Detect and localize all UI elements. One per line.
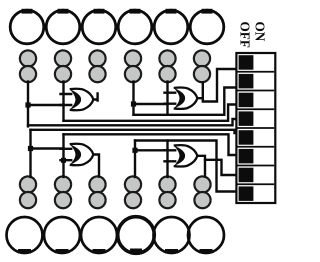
terminal pair P8 [55,176,71,208]
op-amp gate G2 (top-right XOR) [174,88,198,109]
terminal pair P2 [55,50,71,82]
lamp L3 [82,9,116,44]
wire bus4 (G3 rail) to row6 [64,134,238,155]
op-amp gate G3 (bottom-left XOR) [70,144,94,165]
wire P10 up [134,141,136,178]
svg-text:OFF: OFF [237,22,252,48]
DIP switch S1 body [236,53,275,203]
wire G3 input1 from P7 [31,147,64,149]
wire G2 output to switch row1 [203,69,237,102]
lamp L12 [188,217,224,253]
terminal pair P9 [89,176,105,208]
lamp L10 (bolder) [118,217,155,254]
terminal pair P4 [125,50,141,82]
node D (P10/G4 input) [132,148,137,153]
wire P7 up [29,130,31,177]
terminal pair P7 (bottom) [20,176,36,208]
lamp L11 [154,217,190,253]
wire G2 output to P6 [197,83,203,99]
node E (G3 rail/in2) [61,158,66,163]
wire G3 rail (P8 up) [62,134,64,177]
lamp L1 (top row) [10,9,44,44]
wire G2 rail (P5 down) [166,82,168,115]
lamp L5 [154,9,188,44]
wire bus S6 (P10 net) to row8 [135,141,237,192]
wire G4 rail (P11 up) [166,141,168,178]
wire bus S5 (P4 net) to row2 [134,88,238,115]
wire bus1 (G1 rail) to row3 [64,105,238,121]
lamp L4 [118,9,152,44]
lamp L8 [44,217,80,253]
op-amp gate G1 (top-left XOR) [70,89,94,110]
wire P4 down [132,82,134,115]
wire bus2 (P1 net) to row4 [28,119,237,125]
op-amp gate G4 (bottom-right XOR) [174,145,198,166]
wire G1 input2 from P1 [28,104,64,106]
lamp L7 (bottom row) [7,217,43,253]
node C (P7/G3 input) [28,146,33,151]
svg-text:ON: ON [252,22,267,42]
switch sliders (all OFF, left) [239,55,254,201]
wire P1 down [27,82,29,127]
wire G1 rail (P2 down) [62,82,64,121]
wire G2 input2 from P4 [134,103,168,105]
lamp L6 [190,9,224,44]
terminal pair P3 [89,50,105,82]
wire G1 output stub [93,94,97,101]
wire G2 input stubs [165,93,176,104]
switch row separators [238,72,275,185]
node A (P1/G1 input) [25,102,30,107]
wire G1 input stubs [61,94,72,105]
wire G4 output to P12 [197,156,205,177]
terminal pair P12 [194,176,210,208]
wire G4 input stubs [165,150,176,161]
wire G3 input stubs [61,149,72,160]
wire G3 output to P9 [93,155,99,177]
node B (P4/G2 input) [131,101,136,106]
wire bus3 (P7 net) to row5 [31,130,238,133]
lamp L9 [81,217,117,253]
wire G4 input1 from P10 [135,149,168,151]
node junction dots [25,101,137,162]
terminal pair P5 [159,50,175,82]
terminal pair P10 [125,176,141,208]
lamp L2 [46,9,80,44]
terminal pair P6 [194,50,210,82]
terminal pair P1 (top) [20,50,36,82]
wire G4 output to switch row7 [205,160,237,175]
terminal pair P11 [159,176,175,208]
